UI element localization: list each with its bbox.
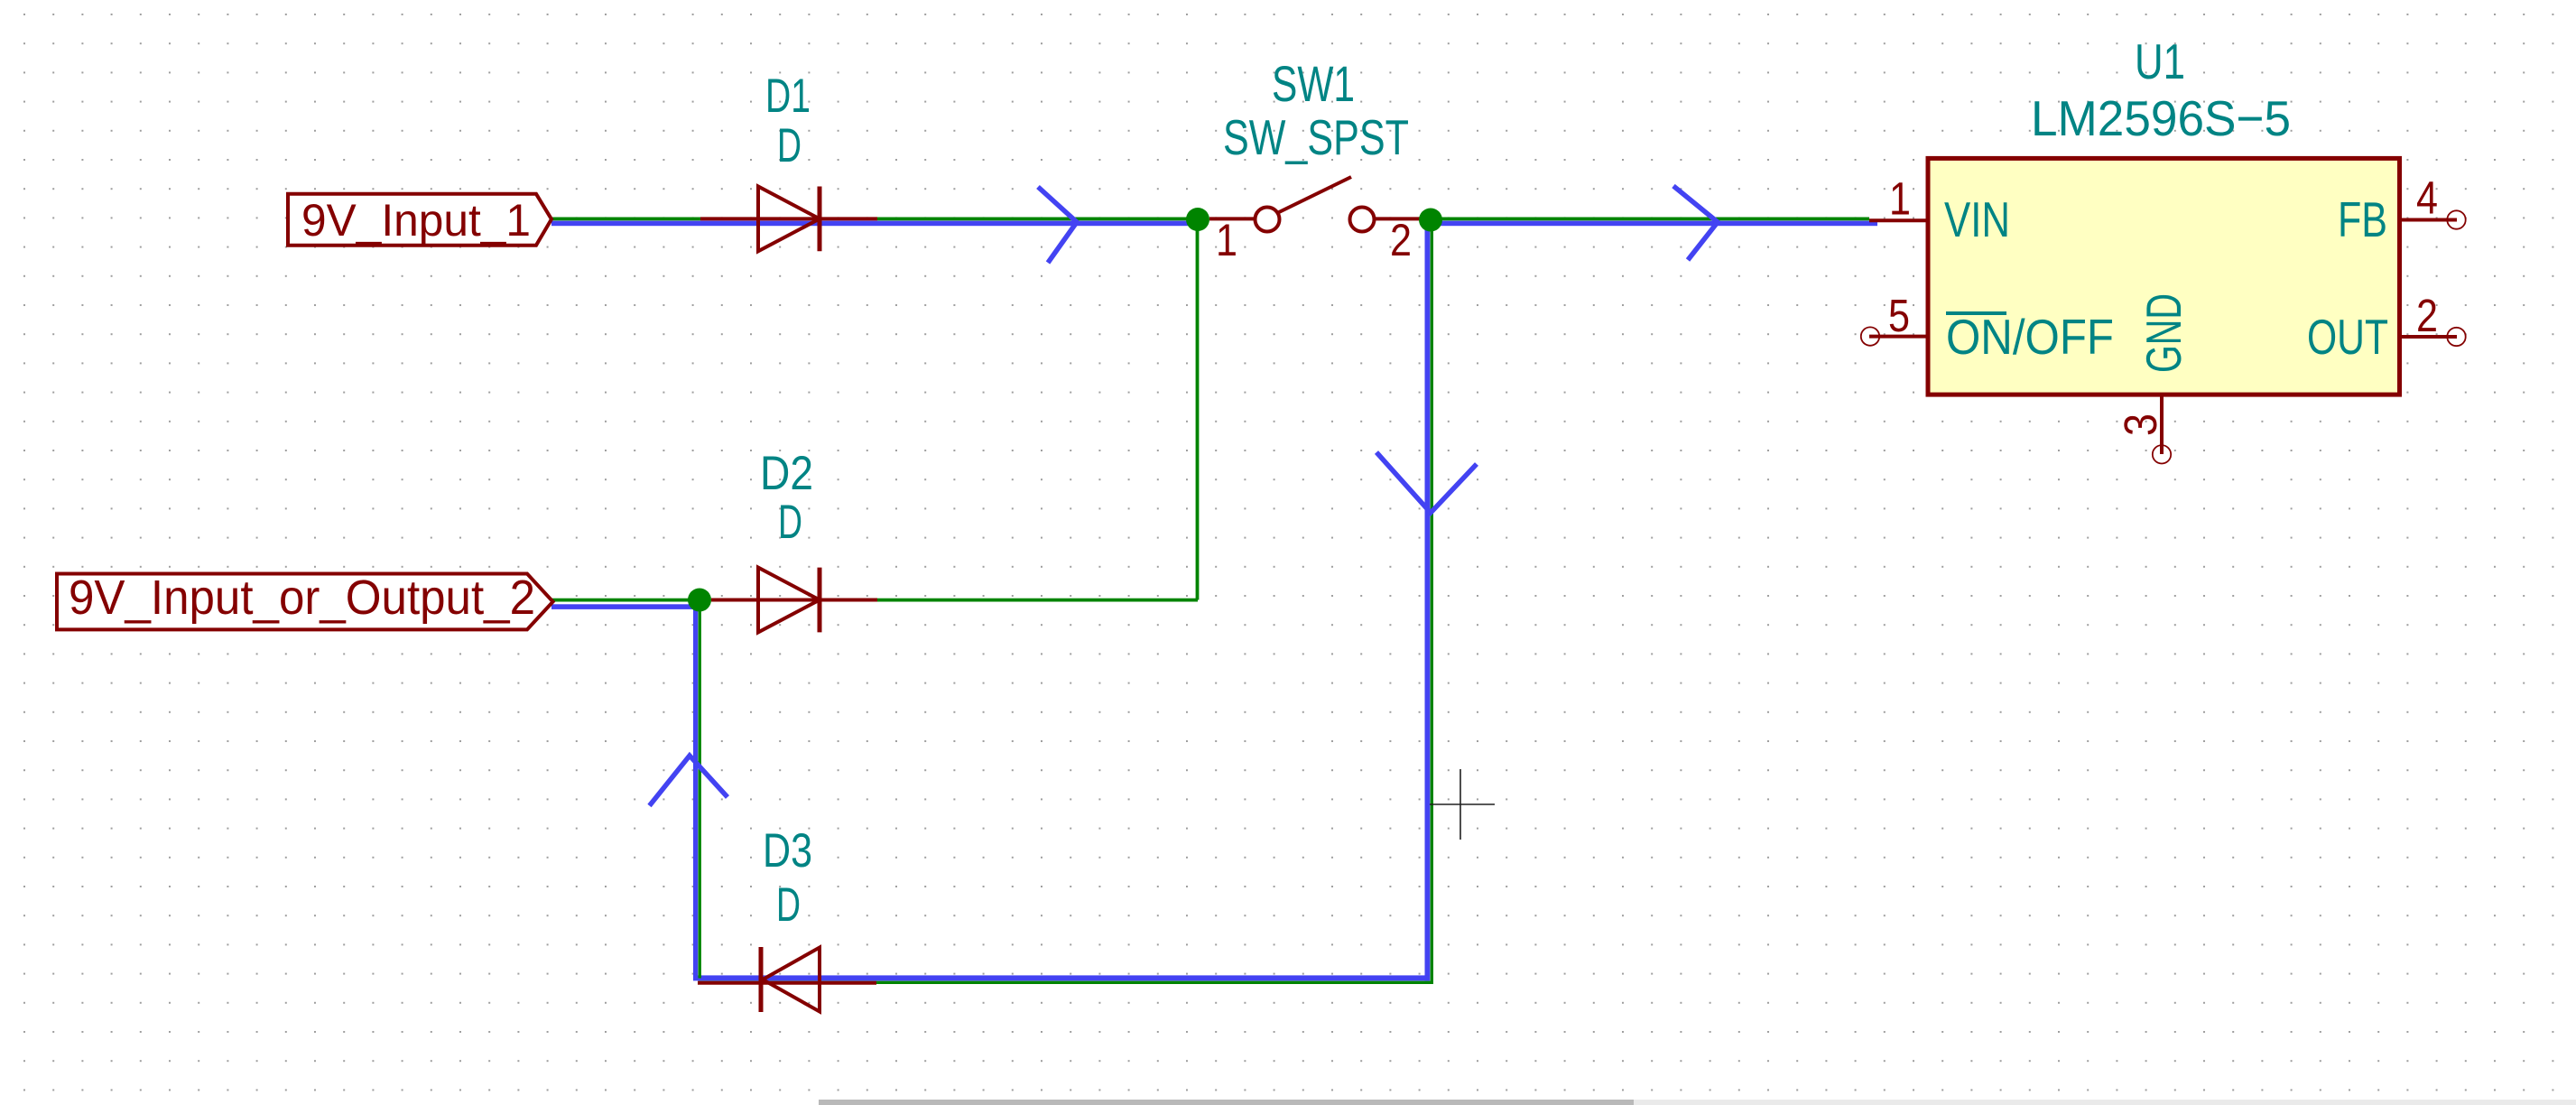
wire highlight (blue) bottom run xyxy=(693,975,1430,980)
svg-text:2: 2 xyxy=(2416,290,2438,341)
svg-text:9V_Input_or_Output_2: 9V_Input_or_Output_2 xyxy=(69,571,535,625)
svg-text:D2: D2 xyxy=(760,447,813,500)
svg-text:LM2596S−5: LM2596S−5 xyxy=(2031,90,2291,146)
svg-text:D: D xyxy=(778,496,802,549)
U1 pin 2 OUT xyxy=(2400,328,2466,346)
svg-text:5: 5 xyxy=(1888,290,1910,341)
svg-text:VIN: VIN xyxy=(1944,191,2010,247)
svg-text:D3: D3 xyxy=(763,824,812,877)
svg-text:4: 4 xyxy=(2416,172,2438,224)
svg-text:FB: FB xyxy=(2338,191,2387,247)
switch SW1 xyxy=(1209,177,1431,232)
svg-text:1: 1 xyxy=(1889,173,1911,225)
hierarchical label 9V_Input_or_Output_2 xyxy=(57,571,553,629)
U1 pin 1 VIN xyxy=(1869,218,1928,222)
svg-text:9V_Input_1: 9V_Input_1 xyxy=(301,195,531,246)
wire highlight (blue) label1 to junction 1 xyxy=(551,221,1196,227)
junction node 2 xyxy=(1419,209,1442,232)
cursor crosshair xyxy=(1430,769,1495,840)
current direction arrow (blue) toward U1 xyxy=(1673,186,1718,260)
svg-text:1: 1 xyxy=(1216,215,1237,265)
wire junction 3 down (vertical green) xyxy=(699,600,701,979)
hierarchical label 9V_Input_1 xyxy=(288,194,551,246)
U1 pin 4 FB xyxy=(2400,210,2466,228)
wire 9V_Input_1 label to D1 anode xyxy=(551,218,700,221)
wire highlight (blue) label2 to junction 3 xyxy=(551,604,696,609)
horizontal scrollbar track xyxy=(1634,1100,2576,1105)
wire highlight (blue) vertical junction 3 down xyxy=(693,604,698,978)
wire right vertical (green) junction 2 down to bottom corner xyxy=(1431,219,1433,984)
current direction arrow (blue) toward SW1 xyxy=(1038,187,1077,263)
U1 pin 3 GND bottom xyxy=(2153,395,2171,464)
current direction arrow (blue) upward on left vertical xyxy=(650,756,728,806)
svg-text:SW_SPST: SW_SPST xyxy=(1223,109,1409,165)
junction node 1 xyxy=(1186,208,1209,231)
IC U1 body xyxy=(1928,158,2400,395)
junction node 3 xyxy=(688,589,711,612)
svg-text:D: D xyxy=(776,878,801,932)
svg-text:U1: U1 xyxy=(2135,33,2185,89)
wire D2 cathode to corner (horizontal) xyxy=(877,599,1198,602)
svg-text:ON/OFF: ON/OFF xyxy=(1946,309,2114,365)
diode D2 xyxy=(711,568,877,633)
U1 pin name ON/OFF with overline xyxy=(1946,309,2114,365)
svg-text:SW1: SW1 xyxy=(1272,55,1355,112)
wire junction 1 down to D2 cathode net (vertical) xyxy=(1196,218,1200,600)
svg-text:D1: D1 xyxy=(765,70,811,123)
wire highlight (blue) junction 2 to U1 VIN xyxy=(1431,221,1877,227)
current direction arrow (blue) downward on right vertical xyxy=(1376,452,1477,513)
diode D3 xyxy=(698,947,876,1012)
wire junction 2 to U1 VIN pin xyxy=(1431,218,1869,221)
wire highlight (blue) vertical junction 2 down xyxy=(1425,221,1431,981)
svg-text:GND: GND xyxy=(2136,293,2191,373)
svg-text:3: 3 xyxy=(2115,413,2166,436)
U1 pin 5 ON/OFF xyxy=(1861,327,1928,345)
diode D1 xyxy=(700,187,877,252)
svg-text:2: 2 xyxy=(1390,215,1412,265)
horizontal scrollbar thumb xyxy=(819,1100,1634,1105)
wire bottom run (green) D3 to right corner xyxy=(699,981,1434,984)
svg-text:D: D xyxy=(777,119,802,172)
wire D1 cathode to junction 1 xyxy=(877,218,1198,221)
wire 9V_Input_or_Output_2 label to junction 3 xyxy=(551,599,700,602)
svg-text:OUT: OUT xyxy=(2307,309,2388,365)
